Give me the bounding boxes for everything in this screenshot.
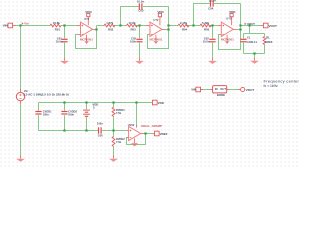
svg-text:2.5 AC 1 SIN(2.5 0.5 1k 325.9k: 2.5 AC 1 SIN(2.5 0.5 1k 325.9k 0) bbox=[23, 92, 68, 96]
svg-text:10.0n: 10.0n bbox=[203, 39, 210, 43]
svg-text:R05: R05 bbox=[204, 28, 210, 32]
svg-text:100n: 100n bbox=[43, 112, 49, 116]
svg-text:Vin: Vin bbox=[24, 22, 29, 26]
svg-text:5.49k: 5.49k bbox=[202, 21, 209, 25]
svg-text:VOUT: VOUT bbox=[246, 88, 255, 92]
svg-text:R01: R01 bbox=[55, 28, 61, 32]
svg-text:U?2: U?2 bbox=[153, 18, 159, 22]
svg-text:U?3: U?3 bbox=[226, 16, 232, 20]
svg-text:BODE: BODE bbox=[217, 93, 225, 97]
svg-text:IDEAL_OPAMP: IDEAL_OPAMP bbox=[141, 124, 162, 128]
svg-text:1.87k: 1.87k bbox=[106, 21, 113, 25]
svg-text:10.0n: 10.0n bbox=[137, 0, 144, 3]
svg-text:7.5k: 7.5k bbox=[116, 111, 122, 115]
svg-text:C02: C02 bbox=[138, 9, 144, 13]
svg-text:VDD: VDD bbox=[158, 101, 165, 105]
svg-text:UV02: UV02 bbox=[128, 123, 135, 127]
svg-text:C06: C06 bbox=[98, 133, 103, 137]
svg-text:100n: 100n bbox=[130, 39, 136, 43]
svg-text:MCP6001: MCP6001 bbox=[150, 38, 163, 42]
svg-text:VOUT: VOUT bbox=[247, 22, 255, 26]
svg-text:2.15k: 2.15k bbox=[180, 21, 187, 25]
svg-text:Frequency center: Frequency center bbox=[264, 78, 300, 83]
svg-text:100n: 100n bbox=[97, 121, 103, 125]
svg-text:7.5k: 7.5k bbox=[116, 140, 122, 144]
svg-text:100n: 100n bbox=[68, 112, 74, 116]
svg-text:U?1: U?1 bbox=[84, 17, 90, 21]
svg-text:10.0n: 10.0n bbox=[56, 39, 63, 43]
svg-text:VDD: VDD bbox=[157, 10, 164, 14]
svg-text:VDD: VDD bbox=[85, 10, 92, 14]
svg-text:C04: C04 bbox=[208, 6, 214, 10]
svg-text:15.8k: 15.8k bbox=[53, 21, 60, 25]
svg-text:17.8k: 17.8k bbox=[129, 21, 136, 25]
svg-text:fc = 1kHz: fc = 1kHz bbox=[264, 84, 279, 88]
svg-text:VIN: VIN bbox=[3, 24, 9, 28]
svg-text:MCP6001: MCP6001 bbox=[221, 38, 234, 42]
svg-text:IN: IN bbox=[215, 87, 218, 91]
svg-text:VOUT: VOUT bbox=[269, 24, 278, 28]
svg-text:R02: R02 bbox=[108, 28, 114, 32]
svg-text:100E6: 100E6 bbox=[265, 40, 273, 44]
svg-text:R04: R04 bbox=[182, 28, 188, 32]
svg-text:CL: CL bbox=[247, 35, 251, 39]
svg-text:VREF: VREF bbox=[160, 132, 168, 136]
svg-text:10.0n: 10.0n bbox=[209, 0, 216, 3]
svg-text:VIN: VIN bbox=[191, 88, 196, 92]
svg-text:OUT: OUT bbox=[220, 87, 226, 91]
svg-text:R03: R03 bbox=[131, 28, 137, 32]
svg-text:1.00E-11: 1.00E-11 bbox=[246, 40, 257, 44]
svg-text:RL: RL bbox=[266, 35, 270, 39]
svg-text:VDD: VDD bbox=[229, 10, 236, 14]
svg-text:MCP6001: MCP6001 bbox=[80, 38, 93, 42]
